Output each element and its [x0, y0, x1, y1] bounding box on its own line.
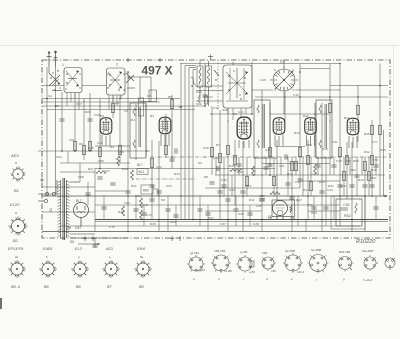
svg-text:R7: R7: [216, 143, 220, 147]
waverange switch unit 3 (osc): [223, 62, 252, 109]
svg-text:R42: R42: [364, 150, 370, 154]
svg-text:C36: C36: [238, 212, 244, 216]
svg-text:497 X: 497 X: [142, 64, 173, 78]
svg-text:R10: R10: [237, 170, 243, 174]
svg-text:R30: R30: [122, 167, 128, 171]
extra mid-band stubs right: [95, 157, 379, 211]
svg-text:C20,4: C20,4: [297, 270, 304, 274]
svg-text:R15: R15: [319, 180, 325, 184]
stray junction specks: [83, 96, 358, 220]
svg-text:C64: C64: [56, 155, 62, 159]
svg-text:a: a: [15, 211, 17, 215]
svg-text:B6: B6: [76, 285, 82, 289]
svg-text:C10: C10: [213, 106, 219, 110]
svg-text:g4,C84: g4,C84: [190, 251, 199, 255]
svg-text:S12: S12: [196, 102, 202, 106]
svg-text:C56: C56: [271, 269, 276, 273]
bottom row: left pinout group: [8, 247, 152, 289]
svg-text:C41: C41: [279, 164, 285, 168]
tube base B5 (EFV,EF9): [8, 260, 25, 277]
svg-text:R41: R41: [328, 184, 334, 188]
marks right of box: [126, 73, 134, 81]
svg-text:EAB1: EAB1: [43, 247, 53, 251]
tube V2: [159, 117, 171, 134]
svg-text:c: c: [243, 277, 245, 281]
svg-text:R47: R47: [371, 176, 377, 180]
BL1 boxed label and R60 box: [137, 163, 158, 196]
svg-text:C6: C6: [124, 109, 128, 113]
svg-text:C62: C62: [97, 141, 103, 145]
svg-text:g,C56: g,C56: [198, 268, 205, 272]
svg-text:R45: R45: [380, 148, 386, 152]
mains plugs through border: [38, 192, 58, 202]
svg-text:20a: 20a: [290, 217, 296, 221]
svg-text:C88,C89: C88,C89: [214, 249, 225, 253]
svg-text:R44: R44: [294, 131, 300, 135]
svg-text:C35: C35: [256, 204, 262, 208]
svg-text:C51: C51: [332, 140, 338, 144]
svg-text:f: f: [316, 278, 318, 282]
svg-text:C44: C44: [327, 188, 333, 192]
svg-text:h +6+0: h +6+0: [363, 278, 373, 282]
socket diagram h: [364, 255, 378, 271]
svg-text:R52: R52: [344, 214, 351, 218]
main vertical wires: [47, 62, 384, 231]
svg-text:b: b: [218, 277, 220, 281]
socket diagram e: [283, 253, 303, 273]
svg-text:a: a: [193, 277, 195, 281]
svg-text:R47: R47: [296, 199, 302, 203]
main horizontal wires: [38, 64, 388, 232]
socket diagram g: [339, 257, 354, 272]
svg-text:C24: C24: [170, 220, 176, 224]
oscillator coil bank: [196, 60, 223, 110]
svg-text:R43: R43: [358, 178, 364, 182]
box around indicator tube: [259, 198, 317, 221]
svg-text:R31: R31: [131, 184, 137, 188]
svg-text:S2,/R88: S2,/R88: [311, 248, 322, 252]
svg-text:C88: C88: [259, 198, 265, 202]
mains plug B2 diagram: [9, 217, 28, 236]
arrows below transformer: [78, 238, 100, 248]
svg-text:C17: C17: [207, 95, 213, 99]
left margin column: [9, 153, 28, 243]
svg-text:C34: C34: [245, 184, 251, 188]
svg-text:R46: R46: [364, 132, 370, 136]
rotary switch wafer face: [270, 60, 297, 91]
svg-text:b: b: [46, 255, 48, 259]
tube V1: [100, 118, 112, 135]
svg-text:C13: C13: [238, 110, 244, 114]
svg-text:S6: S6: [67, 226, 71, 230]
svg-text:e: e: [291, 277, 293, 281]
svg-text:g,/56: g,/56: [249, 270, 255, 274]
svg-text:EFV,EF9: EFV,EF9: [8, 247, 24, 251]
svg-text:B2: B2: [13, 238, 19, 243]
tube base B6 (EL3): [71, 260, 88, 277]
aerial plug B1 diagram: [10, 166, 25, 181]
IF can 2: [254, 100, 270, 158]
dash-dot schematic border: [42, 60, 390, 238]
svg-text:Z0: Z0: [267, 217, 272, 221]
socket diagram b: [211, 255, 231, 273]
svg-text:C1: C1: [147, 94, 151, 98]
svg-text:AH2: AH2: [340, 184, 346, 188]
svg-text:C76: C76: [109, 225, 115, 229]
svg-text:R38: R38: [229, 164, 235, 168]
svg-text:R14: R14: [303, 188, 309, 192]
svg-text:g: g: [343, 277, 345, 281]
svg-text:C4: C4: [115, 101, 119, 105]
svg-text:S7: S7: [56, 104, 60, 108]
svg-text:a2: a2: [15, 255, 19, 259]
tube V3: [237, 117, 251, 139]
svg-text:1: 1: [62, 63, 64, 67]
svg-text:C79: C79: [372, 158, 378, 162]
waverange switch unit 1 (RF): [49, 63, 125, 93]
left edge smudge: [0, 298, 2, 309]
svg-text:C90: C90: [343, 203, 350, 207]
waverange switch unit 2 (RF b): [107, 63, 136, 96]
verticals under switch boxes: [67, 93, 246, 121]
svg-text:C4,/88: C4,/88: [224, 269, 232, 273]
svg-text:R37: R37: [208, 216, 214, 220]
output / speaker box: [331, 196, 365, 229]
svg-text:E120: E120: [10, 202, 20, 207]
socket diagram f: [308, 255, 329, 274]
svg-text:C70: C70: [142, 203, 148, 207]
svg-text:C57: C57: [76, 102, 82, 106]
svg-text:C23: C23: [166, 184, 172, 188]
paper artifacts: [0, 46, 400, 310]
svg-text:R1: R1: [131, 118, 135, 122]
socket diagram c: [236, 255, 254, 273]
svg-text:.: .: [395, 225, 396, 229]
svg-text:EL3: EL3: [75, 247, 83, 251]
svg-text:B10: B10: [303, 114, 309, 118]
svg-text:d: d: [266, 277, 268, 281]
svg-text:a: a: [15, 161, 17, 165]
svg-text:C81: C81: [350, 168, 356, 172]
svg-text:C37: C37: [220, 222, 226, 226]
resistors scatter: [73, 100, 381, 171]
svg-text:S5: S5: [70, 240, 74, 244]
svg-text:C22: C22: [156, 165, 162, 169]
svg-text:C86: C86: [262, 251, 268, 255]
svg-text:AZ1: AZ1: [105, 247, 113, 251]
svg-text:B7: B7: [107, 285, 113, 289]
svg-text:C38: C38: [253, 222, 259, 226]
svg-text:R50,C88: R50,C88: [339, 250, 350, 254]
svg-text:C2: C2: [48, 94, 52, 98]
component label scatter: [48, 78, 386, 229]
svg-text:S24,/R87: S24,/R87: [362, 249, 374, 253]
bottom-left labels: [67, 226, 81, 244]
svg-text:C42: C42: [295, 180, 301, 184]
svg-text:R27: R27: [88, 167, 94, 171]
power transformer: [49, 178, 128, 240]
zigzag resistors: [96, 156, 317, 220]
svg-text:S9: S9: [198, 161, 202, 165]
svg-text:C65: C65: [98, 159, 104, 163]
tube base B7 (AZ1): [102, 260, 119, 277]
svg-text:R60: R60: [143, 189, 149, 193]
svg-text:a: a: [109, 255, 111, 259]
ground plug: [54, 51, 58, 67]
svg-text:R25: R25: [88, 146, 94, 150]
rectifier tube AZ1: [74, 199, 89, 226]
svg-text:C92: C92: [124, 201, 130, 205]
svg-text:B11: B11: [344, 116, 350, 120]
svg-text:BL1: BL1: [139, 170, 145, 174]
svg-text:BL7: BL7: [137, 163, 143, 167]
svg-text:C15: C15: [260, 78, 266, 82]
svg-text:S2,/R88: S2,/R88: [285, 249, 296, 253]
svg-text:S8: S8: [161, 198, 165, 202]
svg-text:C63: C63: [118, 150, 124, 154]
svg-text:R8: R8: [204, 175, 208, 179]
svg-text:C43: C43: [311, 172, 317, 176]
svg-text:C20: C20: [196, 90, 202, 94]
svg-text:R2: R2: [79, 142, 83, 146]
antenna input arrow: [47, 51, 52, 67]
svg-text:AE9: AE9: [10, 153, 19, 158]
svg-text:R50: R50: [353, 159, 359, 163]
svg-text:C16: C16: [293, 93, 299, 97]
IF can 3: [316, 100, 332, 158]
svg-text:B1: B1: [14, 188, 19, 193]
svg-text:R32: R32: [118, 210, 124, 214]
svg-text:EM4: EM4: [137, 247, 145, 251]
svg-text:C50: C50: [306, 143, 312, 147]
svg-text:C77: C77: [372, 140, 378, 144]
svg-text:S1: S1: [49, 208, 53, 212]
svg-text:B9: B9: [233, 112, 237, 116]
svg-text:R26: R26: [85, 110, 91, 114]
tube V6: [347, 118, 359, 135]
bottom row: right socket group: [187, 253, 395, 274]
svg-text:C67: C67: [104, 169, 110, 173]
left-center fill wires: [42, 146, 130, 232]
tube base B6 (EAB1): [39, 260, 56, 277]
magic eye tube (round): [268, 201, 288, 221]
svg-text:C40: C40: [265, 148, 271, 152]
svg-text:R36: R36: [150, 222, 156, 226]
svg-text:B3: B3: [100, 114, 104, 118]
svg-text:R11: R11: [249, 198, 255, 202]
svg-text:B5, b: B5, b: [11, 285, 20, 289]
svg-text:2: 2: [116, 63, 118, 67]
svg-text:B6: B6: [44, 285, 50, 289]
tube base B8 (EM4): [134, 260, 151, 277]
svg-text:C78: C78: [336, 159, 342, 163]
svg-text:C66: C66: [78, 175, 84, 179]
tube V4: [273, 118, 285, 135]
trimmer cluster left of box: [49, 73, 60, 84]
svg-text:C30: C30: [203, 146, 209, 150]
svg-text:g: g: [78, 255, 80, 259]
svg-text:R3: R3: [110, 145, 114, 149]
faint page fold line: [0, 45, 400, 47]
IF can 1: [130, 103, 146, 158]
svg-text:C61: C61: [69, 138, 75, 142]
svg-text:R10220: R10220: [356, 239, 376, 245]
tube pin stubs: [102, 134, 357, 148]
svg-text:C71: C71: [146, 213, 152, 217]
svg-text:.: .: [395, 210, 396, 214]
svg-text:g,C85: g,C85: [240, 250, 248, 254]
svg-text:5a: 5a: [140, 255, 144, 259]
svg-text:B4: B4: [150, 114, 154, 118]
svg-text:C87: C87: [75, 226, 81, 230]
bottom stub wires with caps: [101, 86, 388, 232]
tube V5: [305, 118, 317, 135]
right group tiny labels: [190, 248, 374, 282]
socket diagram d: [262, 257, 276, 271]
svg-text:R34: R34: [174, 172, 180, 176]
nested frame rects near 497X: [139, 77, 196, 116]
svg-text:BL7: BL7: [76, 199, 82, 203]
svg-text:S15: S15: [222, 108, 228, 112]
svg-text:R18: R18: [322, 147, 328, 151]
socket diagram h2: [385, 258, 395, 270]
border tick marks: [40, 55, 213, 242]
socket diagram a: [187, 255, 205, 272]
svg-text:B8: B8: [139, 285, 145, 289]
capacitors scatter: [59, 95, 374, 201]
